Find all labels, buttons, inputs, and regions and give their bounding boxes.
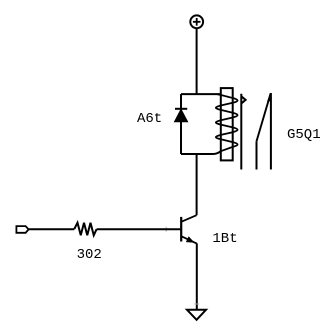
- input terminal pin flag: [16, 226, 28, 233]
- wire: top horizontal node A: [181, 93, 221, 95]
- svg-text:G5Q1: G5Q1: [287, 127, 321, 143]
- transistor Q1 (1Bt) NPN: [181, 215, 197, 243]
- wire: resistor to transistor base: [97, 228, 181, 230]
- wire: V+ stem down to top node: [196, 28, 198, 94]
- collector diagonal: [181, 215, 196, 222]
- junction tick on base wire: [165, 227, 167, 232]
- relay contact fixed terminal (left): [241, 94, 245, 170]
- ground: [187, 310, 206, 320]
- relay contact movable blade terminal (middle): [256, 141, 258, 169]
- diode A6t (flyback, cathode up): [175, 109, 188, 122]
- resistor 302: [74, 223, 96, 236]
- wire: input to resistor: [29, 228, 75, 230]
- svg-text:302: 302: [77, 247, 102, 263]
- emitter diagonal: [181, 236, 197, 243]
- relay contact fixed terminal (right): [270, 93, 272, 170]
- relay contact blade: [257, 93, 271, 141]
- svg-text:A6t: A6t: [137, 111, 162, 127]
- relay contact blade tip triangle: [268, 93, 271, 101]
- junction tick on emitter wire: [194, 303, 199, 305]
- relay coil winding: [216, 94, 238, 151]
- wire: bottom horizontal of diode/coil loop: [181, 151, 220, 154]
- wire: middle vertical down to transistor collector: [196, 154, 198, 215]
- relay coil core (rectangle): [221, 88, 233, 160]
- wire: left branch vertical (diode branch): [180, 94, 182, 154]
- svg-text:1Bt: 1Bt: [212, 231, 237, 247]
- transistor emitter arrow: [186, 237, 194, 243]
- base bar: [180, 217, 182, 242]
- power V+ symbol: [190, 15, 203, 28]
- wire: emitter down to ground: [196, 243, 198, 309]
